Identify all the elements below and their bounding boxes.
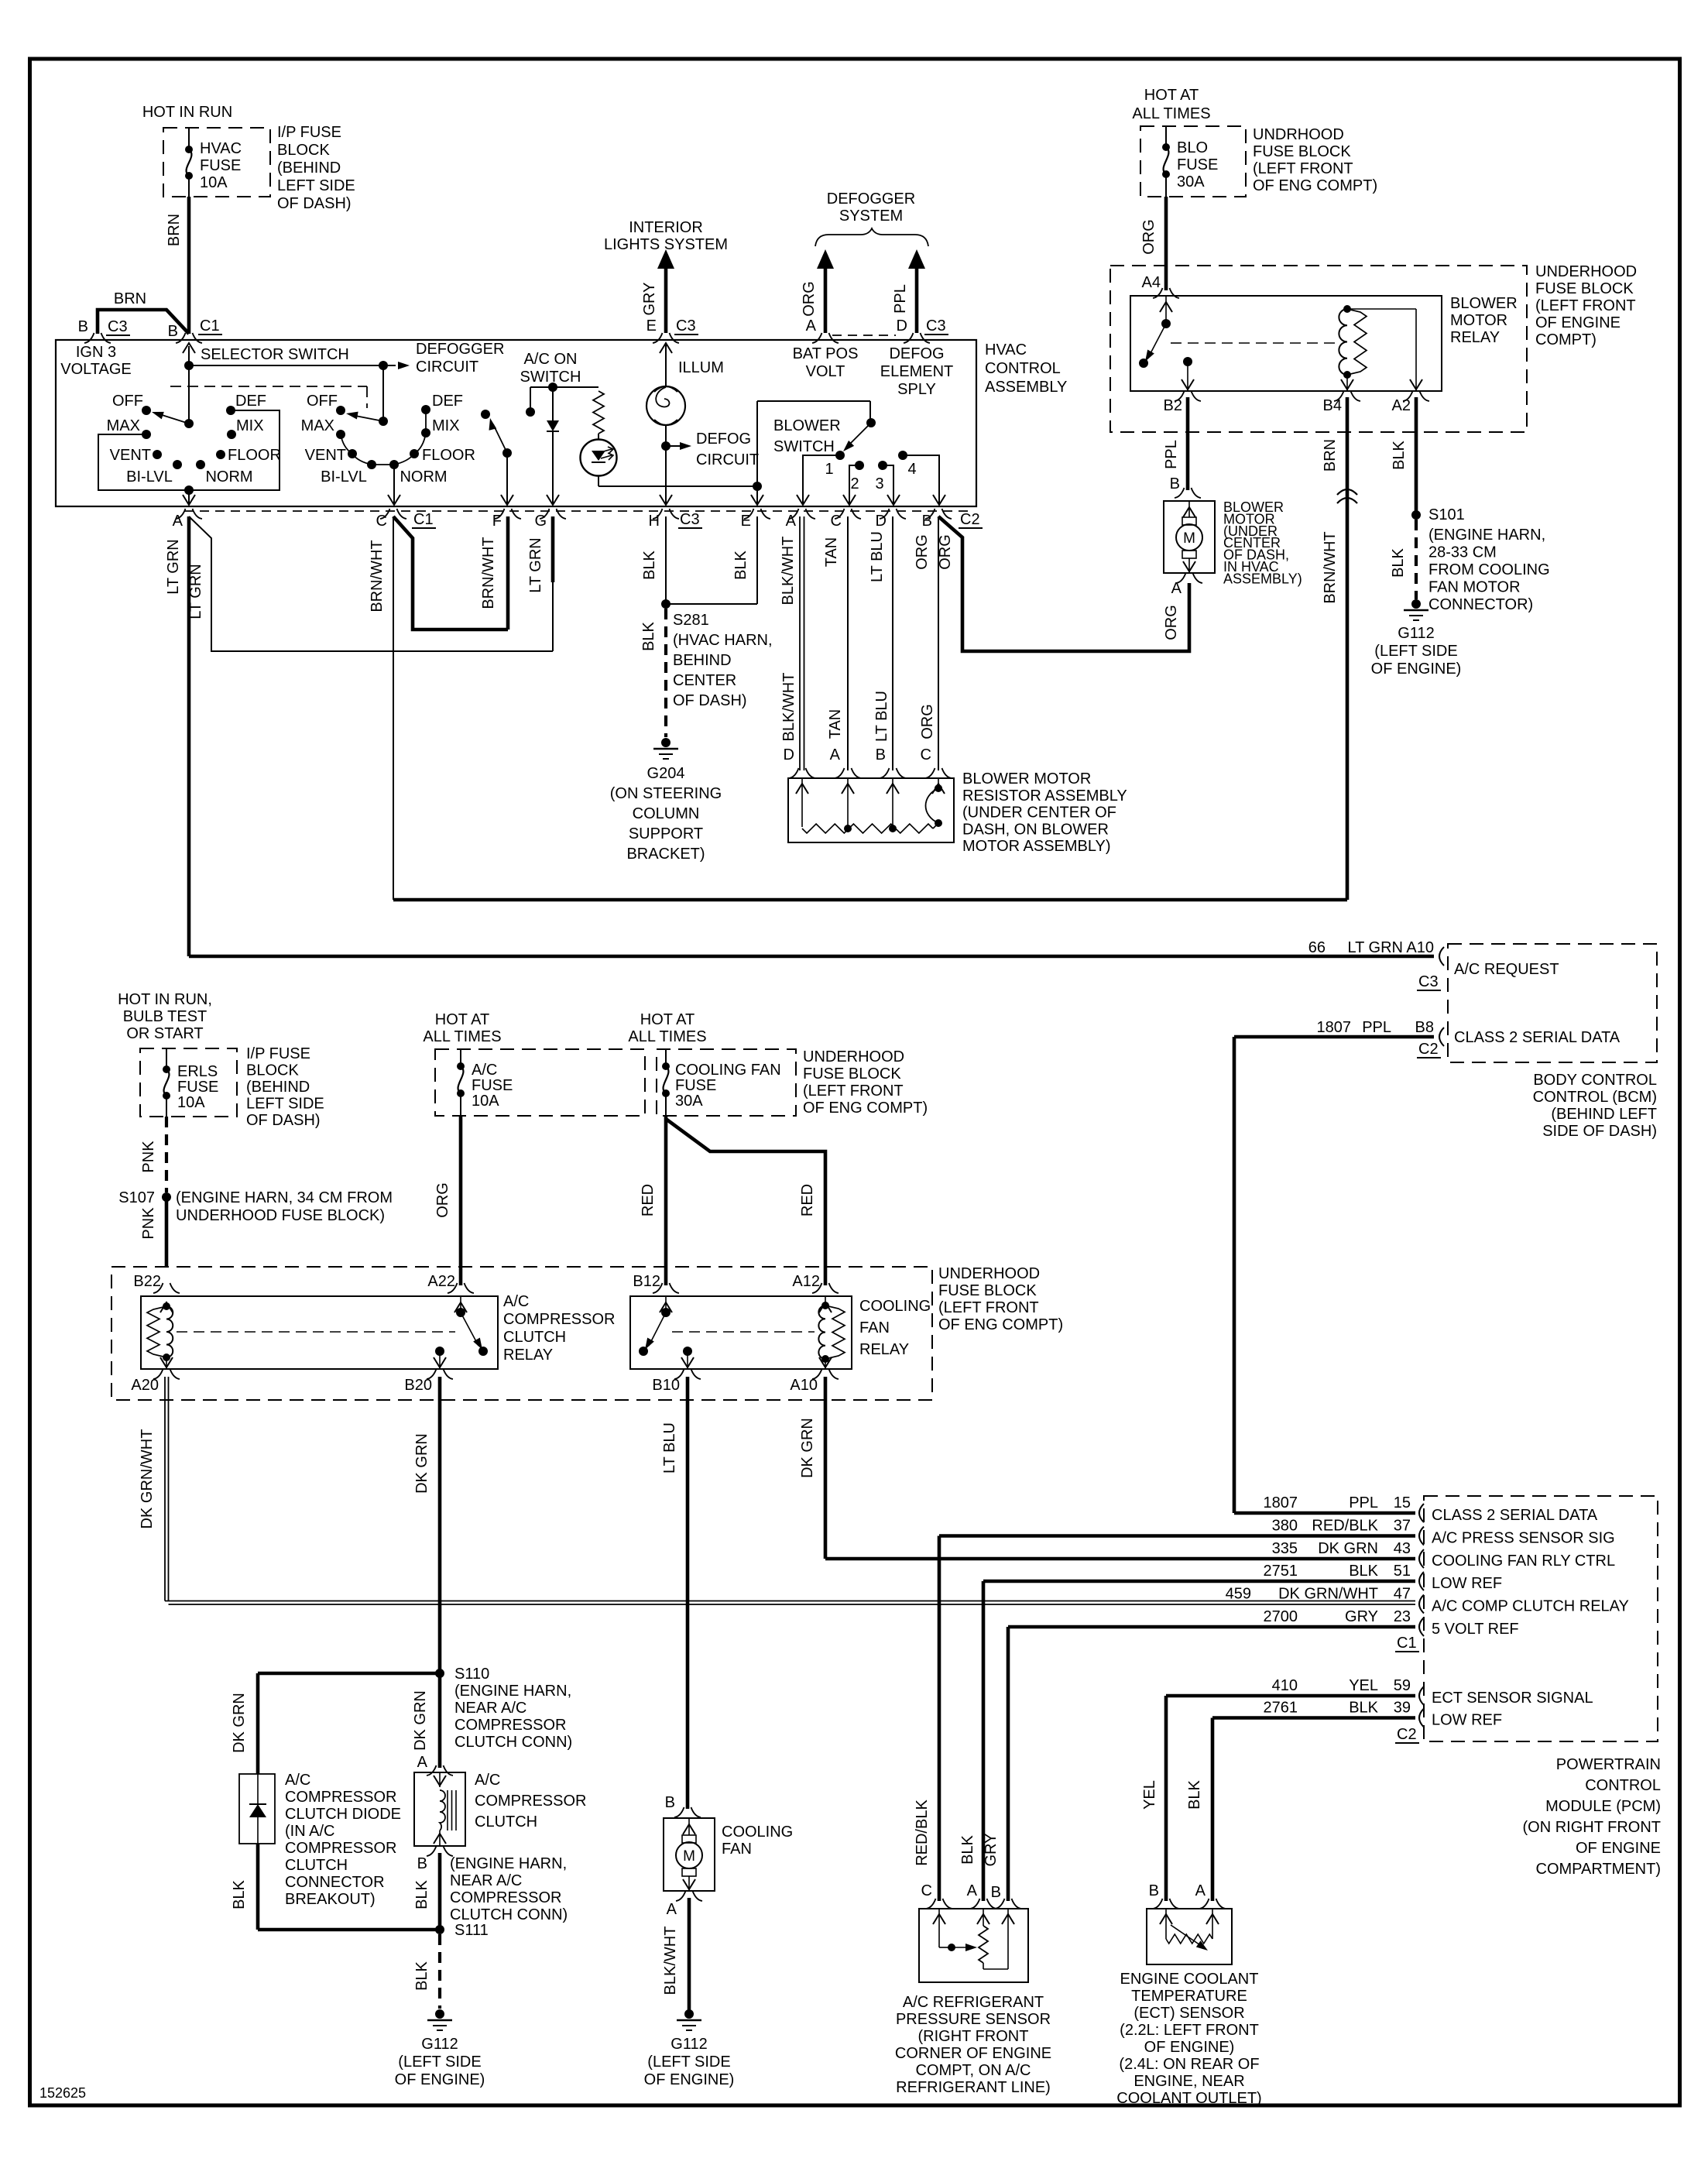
svg-text:C3: C3 <box>676 317 696 335</box>
label ERLS FUSE 10A <box>177 1063 218 1111</box>
svg-text:PPL: PPL <box>1362 1019 1391 1036</box>
label DK GRN a10 <box>799 1418 816 1478</box>
svg-text:COMPRESSOR: COMPRESSOR <box>503 1311 615 1328</box>
svg-text:15: 15 <box>1394 1494 1411 1511</box>
svg-text:A/C: A/C <box>503 1293 529 1310</box>
svg-text:CLUTCH CONN): CLUTCH CONN) <box>454 1734 572 1751</box>
connector pcm pin 43 <box>1419 1549 1424 1568</box>
label A2 <box>1392 397 1411 414</box>
label BLK e <box>732 550 749 579</box>
wire PPL class2 BCM <box>1234 1037 1434 1513</box>
fuse BLO FUSE 30A <box>1162 126 1170 197</box>
connector B motor <box>1175 488 1201 498</box>
cooling fan relay box <box>630 1296 852 1369</box>
svg-text:CONTROL: CONTROL <box>985 360 1061 377</box>
svg-text:A/C REFRIGERANT: A/C REFRIGERANT <box>903 1994 1044 2011</box>
svg-text:LT BLU: LT BLU <box>661 1422 678 1474</box>
svg-text:DK GRN: DK GRN <box>412 1690 429 1751</box>
label BRN b4 <box>1322 439 1339 472</box>
svg-text:BAT POS: BAT POS <box>793 345 859 362</box>
svg-text:SELECTOR SWITCH: SELECTOR SWITCH <box>201 346 349 363</box>
ECT internals <box>1160 1909 1219 1954</box>
label B2 bottom <box>922 511 983 530</box>
label pcm row 459 DK GRN/WHT 47 <box>1226 1586 1411 1603</box>
label BRN vertical <box>166 214 183 246</box>
label HOT AT ALL TIMES blo <box>1132 87 1210 122</box>
underhood fuse block blo (dashed) <box>1140 126 1246 197</box>
svg-text:E: E <box>647 317 657 335</box>
svg-text:B: B <box>876 746 886 763</box>
label DEFOG CIRCUIT <box>696 431 759 468</box>
label pcm signal A/C COMP CLUTCH RELAY <box>1432 1598 1629 1615</box>
svg-text:B2: B2 <box>1164 397 1182 414</box>
svg-text:A: A <box>417 1754 428 1771</box>
label BLOWER MOTOR RELAY <box>1450 295 1518 346</box>
svg-text:FUSE: FUSE <box>472 1077 513 1094</box>
diode AC on switch <box>547 387 559 431</box>
label A/C FUSE 10A <box>472 1062 513 1110</box>
svg-text:MIX: MIX <box>236 417 264 434</box>
svg-text:CLUTCH: CLUTCH <box>285 1857 348 1874</box>
wire 2751 BLK row <box>983 1581 1415 1901</box>
ground G112 right <box>1404 599 1428 620</box>
svg-text:BRN/WHT: BRN/WHT <box>480 537 497 609</box>
svg-text:BLK: BLK <box>413 1879 430 1909</box>
svg-text:ORG: ORG <box>914 534 931 570</box>
svg-text:A: A <box>830 746 841 763</box>
label PNK 1 <box>140 1141 157 1173</box>
wire clutch relay output <box>434 1351 446 1369</box>
svg-text:BI-LVL: BI-LVL <box>321 468 367 485</box>
svg-text:BLOCK: BLOCK <box>246 1062 299 1079</box>
svg-text:LT GRN: LT GRN <box>165 539 182 595</box>
node cf relay output <box>683 1347 692 1356</box>
svg-text:SYSTEM: SYSTEM <box>839 208 903 225</box>
svg-text:GRY: GRY <box>1345 1608 1378 1625</box>
svg-text:FROM COOLING: FROM COOLING <box>1428 561 1550 578</box>
svg-text:CORNER OF ENGINE: CORNER OF ENGINE <box>895 2045 1051 2062</box>
svg-text:OF ENGINE): OF ENGINE) <box>395 2071 485 2088</box>
svg-text:YEL: YEL <box>1141 1780 1158 1810</box>
relay blower switch <box>1139 296 1172 368</box>
wire LT BLU D down <box>892 516 893 770</box>
label INTERIOR LIGHTS SYSTEM <box>604 219 728 253</box>
wire BLK/WHT fan <box>688 1898 691 2014</box>
svg-text:BLK: BLK <box>640 621 657 650</box>
label pcm signal LOW REF <box>1432 1575 1502 1592</box>
wire BLK E down <box>666 516 757 604</box>
wire S2 output arrow <box>388 465 400 505</box>
svg-text:BLK: BLK <box>732 550 749 579</box>
label HVAC FUSE 10A <box>200 140 242 191</box>
wire BLK H down <box>665 516 667 604</box>
connector D top <box>904 333 930 343</box>
label A10 <box>790 1377 818 1394</box>
svg-text:BLK: BLK <box>1349 1700 1378 1717</box>
label C2 pcm <box>1395 1726 1419 1743</box>
wire BRN/WHT C-F loop <box>393 516 508 630</box>
wire illum top arrow <box>660 343 672 386</box>
svg-text:BULB TEST: BULB TEST <box>123 1008 207 1025</box>
connector B22 <box>153 1283 180 1293</box>
svg-text:COOLING FAN RLY CTRL: COOLING FAN RLY CTRL <box>1432 1553 1615 1570</box>
svg-text:B: B <box>78 318 88 335</box>
svg-text:BLOCK: BLOCK <box>277 142 330 159</box>
svg-text:59: 59 <box>1394 1677 1411 1694</box>
svg-text:COMPRESSOR: COMPRESSOR <box>285 1840 396 1857</box>
svg-text:GRY: GRY <box>983 1834 1000 1867</box>
label pcm row 2761 BLK 39 <box>1264 1700 1411 1717</box>
svg-text:VOLTAGE: VOLTAGE <box>60 361 132 378</box>
mech linkage dashed <box>170 386 367 408</box>
connector A x1036 <box>789 509 815 519</box>
switch blower contact 1 <box>835 451 845 460</box>
svg-text:IGN 3: IGN 3 <box>76 344 116 361</box>
switch S3 arm <box>486 417 512 458</box>
svg-text:C2: C2 <box>1397 1726 1417 1743</box>
wire led top <box>598 434 599 440</box>
switch S1 DEF contact <box>226 406 235 415</box>
labels resistor connectors <box>784 746 931 763</box>
wire S1 MAX-DEF loop <box>98 410 280 490</box>
svg-text:LEFT SIDE: LEFT SIDE <box>277 177 355 194</box>
svg-text:COLUMN: COLUMN <box>633 805 700 822</box>
label RED b12 <box>640 1184 657 1216</box>
wire LT GRN G down <box>551 516 555 651</box>
svg-text:G112: G112 <box>421 2036 458 2053</box>
svg-text:OFF: OFF <box>307 393 338 410</box>
label A4 <box>1142 274 1161 291</box>
svg-text:CLUTCH: CLUTCH <box>475 1813 537 1830</box>
connector A motor <box>1176 573 1202 583</box>
svg-text:1807: 1807 <box>1317 1019 1352 1036</box>
svg-text:CLASS 2 SERIAL DATA: CLASS 2 SERIAL DATA <box>1454 1029 1621 1046</box>
label G204 <box>610 765 722 863</box>
label B22 <box>133 1273 161 1290</box>
switch AC contact <box>526 387 535 417</box>
svg-text:DEF: DEF <box>235 393 266 410</box>
switch S3 contact <box>481 410 490 419</box>
connector pcm pin 47 <box>1419 1595 1424 1614</box>
label MIX s1 <box>236 417 264 434</box>
svg-text:I/P FUSE: I/P FUSE <box>277 124 341 141</box>
dashed connector segment top <box>832 335 896 336</box>
label GRY sensor <box>983 1834 1000 1867</box>
switch S1 MIX contact <box>227 430 236 439</box>
label B clutch <box>417 1855 427 1872</box>
svg-text:MOTOR: MOTOR <box>1450 312 1507 329</box>
switch S2 BI-LVL contact <box>367 460 376 469</box>
svg-text:BLK: BLK <box>959 1834 976 1864</box>
wire BRN/WHT C down <box>393 516 394 900</box>
connector resistor x1095 <box>835 768 861 778</box>
wire DK GRN A10 down <box>825 1377 1415 1559</box>
wire coil to A2 <box>1347 309 1422 391</box>
svg-text:(BEHIND: (BEHIND <box>277 160 341 177</box>
label pcm signal CLASS 2 SERIAL DATA <box>1432 1507 1598 1524</box>
switch S2 FLOOR contact <box>410 449 419 458</box>
label BLK clutch <box>413 1879 430 1909</box>
wire BLK A2 down <box>1415 397 1418 515</box>
svg-text:RED/BLK: RED/BLK <box>1312 1518 1378 1535</box>
svg-text:BLK: BLK <box>413 1961 430 1990</box>
fuse HVAC FUSE 10A <box>185 128 193 197</box>
label DK GRN b20 <box>413 1433 430 1494</box>
connector pcm pin 15 <box>1419 1504 1424 1522</box>
svg-text:C: C <box>921 1882 932 1899</box>
svg-text:MAX: MAX <box>107 417 140 434</box>
svg-text:51: 51 <box>1394 1563 1411 1580</box>
label BLK/WHT fan <box>662 1927 679 1995</box>
svg-text:G: G <box>534 513 547 530</box>
label GRY <box>641 283 658 316</box>
svg-text:A/C: A/C <box>285 1772 310 1789</box>
label BLK/WHT r2 <box>780 673 797 742</box>
connector B fan <box>674 1807 701 1817</box>
connector A22 <box>448 1283 474 1293</box>
svg-text:A: A <box>667 1901 677 1918</box>
svg-text:C3: C3 <box>680 511 700 528</box>
svg-text:FUSE: FUSE <box>177 1079 218 1096</box>
svg-text:(ENGINE HARN,: (ENGINE HARN, <box>1428 527 1545 544</box>
label pcm signal 5 VOLT REF <box>1432 1621 1519 1638</box>
svg-text:ASSEMBLY: ASSEMBLY <box>985 379 1067 396</box>
svg-text:4: 4 <box>907 461 916 478</box>
label LT GRN a2 <box>187 564 204 619</box>
wire LT BLU B10 down <box>686 1377 690 1809</box>
label PNK 2 <box>140 1207 157 1240</box>
connector resistor x1153 <box>880 768 906 778</box>
label C1 pcm <box>1395 1635 1419 1652</box>
svg-text:ASSEMBLY): ASSEMBLY) <box>1223 571 1302 586</box>
svg-text:459: 459 <box>1226 1586 1251 1603</box>
cooling fan box <box>664 1818 715 1891</box>
connector B20 <box>427 1369 453 1379</box>
label BLK s101 <box>1390 547 1407 577</box>
label PPL <box>1163 440 1180 469</box>
label ORG r1 <box>914 534 931 570</box>
svg-text:A2: A2 <box>1392 397 1411 414</box>
wire RED cooling fan fuse B12 <box>664 1116 668 1285</box>
connector G x714 <box>540 509 566 519</box>
svg-text:ERLS: ERLS <box>177 1063 218 1080</box>
wire cf relay output <box>681 1351 694 1369</box>
svg-text:DEF: DEF <box>432 393 463 410</box>
svg-text:OR START: OR START <box>126 1025 203 1042</box>
brace defogger system <box>815 228 928 246</box>
label BLK h <box>641 550 658 579</box>
svg-text:B12: B12 <box>633 1273 660 1290</box>
svg-text:VENT: VENT <box>305 447 346 464</box>
svg-text:NEAR A/C: NEAR A/C <box>450 1872 522 1889</box>
wire blower contact2 to C <box>843 465 859 505</box>
label A22 <box>427 1273 455 1290</box>
label FLOOR s1 <box>228 447 281 464</box>
svg-text:CONNECTOR): CONNECTOR) <box>1428 596 1533 613</box>
connector B-C1 into assembly <box>176 333 202 343</box>
svg-text:BLOWER: BLOWER <box>1450 295 1518 312</box>
wire 2761 BLK row <box>1212 1718 1415 1902</box>
label BRN horizontal <box>114 290 146 307</box>
wire 380 RED/BLK row <box>939 1536 1415 1902</box>
wire DK GRN/WHT A20 double <box>165 1377 1415 1604</box>
svg-text:UNDRHOOD: UNDRHOOD <box>1253 126 1344 143</box>
wire PNK dashed <box>165 1117 168 1192</box>
svg-text:GRY: GRY <box>641 283 658 316</box>
label UNDRHOOD FUSE BLOCK <box>1253 126 1377 194</box>
diode A/C compressor clutch <box>249 1774 266 1844</box>
svg-text:BRN/WHT: BRN/WHT <box>369 540 386 612</box>
label ILLUM <box>678 359 724 376</box>
label pcm signal A/C PRESS SENSOR SIG <box>1432 1530 1615 1547</box>
wire defog circuit arrow <box>666 442 691 450</box>
svg-text:(LEFT SIDE: (LEFT SIDE <box>398 2053 481 2071</box>
label YEL ect <box>1141 1780 1158 1810</box>
svg-text:380: 380 <box>1272 1518 1298 1535</box>
connector A clutch <box>427 1765 453 1776</box>
svg-text:DEFOG: DEFOG <box>889 345 944 362</box>
svg-text:(LEFT SIDE: (LEFT SIDE <box>647 2053 730 2071</box>
svg-text:B20: B20 <box>404 1377 432 1394</box>
label MAX s2 <box>301 417 334 434</box>
label H bottom <box>649 511 702 530</box>
relay blower coil <box>1339 305 1367 379</box>
switch S2 MAX contact <box>336 430 345 439</box>
label DEF s2 <box>432 393 463 410</box>
connector inline BRN <box>1337 489 1357 503</box>
svg-text:UNDERHOOD: UNDERHOOD <box>803 1048 904 1065</box>
svg-text:(ENGINE HARN, 34 CM FROM: (ENGINE HARN, 34 CM FROM <box>176 1189 393 1206</box>
svg-text:SWITCH: SWITCH <box>773 438 835 455</box>
svg-text:ORG: ORG <box>434 1182 451 1218</box>
label 1807 PPL B8 <box>1317 1019 1435 1036</box>
label A/C COMPRESSOR CLUTCH DIODE <box>285 1772 401 1908</box>
blower motor resistor assembly box <box>788 778 954 842</box>
svg-text:BRN: BRN <box>166 214 183 246</box>
connector class2 BCM <box>1439 1028 1444 1046</box>
label HOT IN RUN BULB TEST OR START <box>118 991 212 1042</box>
svg-text:POWERTRAIN: POWERTRAIN <box>1556 1756 1661 1773</box>
svg-text:ORG: ORG <box>1163 605 1180 640</box>
svg-text:FAN MOTOR: FAN MOTOR <box>1428 579 1521 596</box>
label 1 <box>825 461 833 478</box>
svg-text:CONTROL (BCM): CONTROL (BCM) <box>1533 1089 1657 1106</box>
label BLOWER MOTOR text <box>1223 499 1302 586</box>
label S110 <box>454 1666 572 1751</box>
PCM box dashed <box>1424 1496 1658 1741</box>
svg-text:OF ENGINE: OF ENGINE <box>1576 1840 1661 1857</box>
svg-text:ALL TIMES: ALL TIMES <box>1132 105 1210 122</box>
resistor element <box>802 823 938 833</box>
wire LT GRN to AC request <box>189 955 1434 959</box>
svg-text:BLK: BLK <box>1186 1779 1203 1809</box>
svg-text:CLUTCH DIODE: CLUTCH DIODE <box>285 1806 401 1823</box>
svg-text:ORG: ORG <box>919 704 936 739</box>
label S111 <box>454 1922 489 1939</box>
wire BLK dashed S101 <box>1415 520 1418 599</box>
svg-text:I/P FUSE: I/P FUSE <box>246 1045 310 1062</box>
label COOLING FAN <box>722 1824 793 1858</box>
wire to defogger circuit <box>189 362 410 369</box>
svg-text:A: A <box>173 513 183 530</box>
connector A10 <box>812 1369 839 1379</box>
svg-text:BLK/WHT: BLK/WHT <box>780 673 797 742</box>
svg-text:ENGINE, NEAR: ENGINE, NEAR <box>1134 2073 1244 2090</box>
label pcm signal ECT SENSOR SIGNAL <box>1432 1690 1593 1707</box>
svg-text:OF ENG COMPT): OF ENG COMPT) <box>938 1316 1063 1333</box>
label A2 bottom <box>786 513 797 530</box>
label G112 right <box>1371 625 1462 678</box>
node defogger branch <box>379 361 388 370</box>
wire ORG ac fuse <box>459 1116 463 1285</box>
label BRN/WHT f <box>480 537 497 609</box>
label ORG branch <box>937 534 954 570</box>
svg-text:MAX: MAX <box>301 417 334 434</box>
label SELECTOR SWITCH <box>201 346 349 363</box>
label DEFOG ELEMENT SPLY <box>880 345 953 398</box>
wire LT GRN branch <box>189 516 553 651</box>
svg-text:C: C <box>831 513 842 530</box>
wire TAN C down <box>847 516 849 770</box>
svg-text:PRESSURE SENSOR: PRESSURE SENSOR <box>896 2011 1051 2028</box>
svg-text:B: B <box>1149 1882 1159 1899</box>
connector E-C3 top <box>653 333 679 343</box>
connector B4 <box>1334 391 1360 401</box>
label A clutch <box>417 1754 428 1771</box>
label RED/BLK sensor <box>914 1800 931 1866</box>
label A20 <box>131 1377 159 1394</box>
svg-text:B: B <box>665 1794 675 1811</box>
svg-text:HVAC: HVAC <box>200 140 242 157</box>
svg-text:G204: G204 <box>647 765 685 782</box>
label RED a12 <box>799 1184 816 1216</box>
switch S2 feed <box>382 365 384 421</box>
label BLOWER MOTOR RESISTOR ASSEMBLY <box>962 770 1127 855</box>
svg-text:CONNECTOR: CONNECTOR <box>285 1874 385 1891</box>
label E bottom <box>741 513 751 530</box>
svg-text:3: 3 <box>875 475 883 492</box>
node resistor B <box>889 825 897 832</box>
label VENT s2 <box>305 447 346 464</box>
svg-text:2761: 2761 <box>1264 1700 1298 1717</box>
svg-text:FAN: FAN <box>859 1319 890 1336</box>
svg-text:FUSE BLOCK: FUSE BLOCK <box>1535 280 1634 297</box>
connector A fan <box>676 1891 702 1901</box>
svg-text:COMPT): COMPT) <box>1535 331 1597 348</box>
wire ORG B down <box>938 516 939 770</box>
switch S1 NORM contact <box>196 460 205 469</box>
label A12 <box>792 1273 820 1290</box>
svg-text:B: B <box>168 323 178 340</box>
label A/C REFRIGERANT PRESSURE SENSOR <box>895 1994 1051 2096</box>
switch S2 NORM contact <box>389 460 399 469</box>
node S101 <box>1411 510 1421 520</box>
svg-text:BLK: BLK <box>641 550 658 579</box>
svg-text:S281: S281 <box>673 612 709 629</box>
svg-text:OF ENGINE: OF ENGINE <box>1535 314 1621 331</box>
svg-text:UNDERHOOD: UNDERHOOD <box>1535 263 1637 280</box>
svg-text:ALL TIMES: ALL TIMES <box>423 1028 501 1045</box>
svg-text:DK GRN/WHT: DK GRN/WHT <box>139 1429 156 1529</box>
svg-text:C3: C3 <box>108 318 128 335</box>
label POWERTRAIN CONTROL MODULE <box>1522 1756 1661 1878</box>
svg-text:37: 37 <box>1394 1518 1411 1535</box>
wire ORG fuse to relay <box>1164 197 1168 290</box>
svg-text:HOT IN RUN,: HOT IN RUN, <box>118 991 212 1008</box>
label BRN/WHT c <box>369 540 386 612</box>
wire arrow interior lights <box>657 249 674 333</box>
svg-text:30A: 30A <box>675 1093 703 1110</box>
